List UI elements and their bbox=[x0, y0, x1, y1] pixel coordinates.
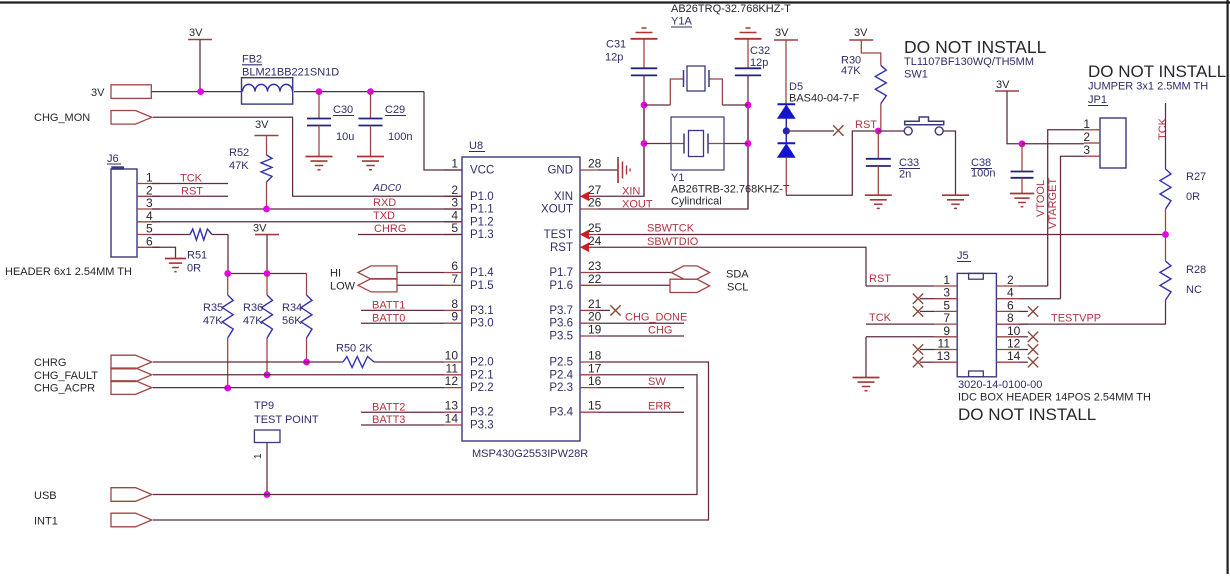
svg-text:0R: 0R bbox=[1186, 191, 1200, 203]
svg-text:GND: GND bbox=[547, 165, 573, 177]
svg-text:C30: C30 bbox=[333, 104, 353, 116]
svg-text:P2.3: P2.3 bbox=[549, 382, 573, 394]
svg-text:INT1: INT1 bbox=[34, 516, 58, 528]
svg-text:1: 1 bbox=[1083, 117, 1090, 131]
svg-text:DO NOT INSTALL: DO NOT INSTALL bbox=[904, 37, 1047, 57]
svg-text:RST: RST bbox=[869, 273, 891, 285]
svg-text:100n: 100n bbox=[388, 131, 412, 143]
svg-text:P3.6: P3.6 bbox=[549, 318, 573, 330]
svg-text:HEADER 6x1 2.54MM TH: HEADER 6x1 2.54MM TH bbox=[5, 266, 132, 278]
svg-text:P1.3: P1.3 bbox=[470, 229, 494, 241]
svg-text:3V: 3V bbox=[255, 119, 269, 131]
svg-text:26: 26 bbox=[588, 196, 602, 210]
svg-text:6: 6 bbox=[146, 234, 153, 248]
svg-text:Y1A: Y1A bbox=[671, 16, 692, 28]
svg-text:MSP430G2553IPW28R: MSP430G2553IPW28R bbox=[472, 448, 588, 460]
svg-text:13: 13 bbox=[937, 349, 951, 363]
svg-text:RXD: RXD bbox=[373, 197, 396, 209]
svg-text:SW: SW bbox=[648, 376, 666, 388]
svg-text:FB2: FB2 bbox=[242, 54, 262, 66]
svg-text:P3.0: P3.0 bbox=[470, 318, 494, 330]
svg-text:P3.7: P3.7 bbox=[549, 305, 573, 317]
svg-text:TCK: TCK bbox=[180, 173, 203, 185]
svg-text:JP1: JP1 bbox=[1088, 94, 1107, 106]
svg-text:R51: R51 bbox=[187, 250, 207, 262]
svg-text:3V: 3V bbox=[91, 87, 105, 99]
svg-text:15: 15 bbox=[588, 399, 602, 413]
svg-text:47K: 47K bbox=[203, 315, 223, 327]
svg-text:R50 2K: R50 2K bbox=[336, 343, 373, 355]
svg-text:CHG_DONE: CHG_DONE bbox=[625, 312, 687, 324]
svg-text:P1.1: P1.1 bbox=[470, 204, 494, 216]
svg-text:R35: R35 bbox=[203, 302, 223, 314]
svg-text:C33: C33 bbox=[899, 157, 919, 169]
svg-text:TCK: TCK bbox=[1157, 117, 1169, 140]
svg-text:P2.4: P2.4 bbox=[549, 369, 573, 381]
svg-text:47K: 47K bbox=[841, 65, 861, 77]
svg-text:12: 12 bbox=[445, 374, 459, 388]
svg-text:P1.7: P1.7 bbox=[549, 267, 573, 279]
svg-text:SBWTDIO: SBWTDIO bbox=[647, 236, 699, 248]
svg-text:19: 19 bbox=[588, 323, 602, 337]
svg-text:AB26TRB-32.768KHZ-T: AB26TRB-32.768KHZ-T bbox=[671, 184, 790, 196]
svg-text:DO NOT INSTALL: DO NOT INSTALL bbox=[1088, 62, 1226, 81]
svg-text:U8: U8 bbox=[469, 140, 483, 152]
svg-text:LOW: LOW bbox=[330, 281, 356, 293]
svg-text:RST: RST bbox=[550, 242, 573, 254]
svg-text:Cylindrical: Cylindrical bbox=[671, 196, 722, 208]
svg-text:P3.2: P3.2 bbox=[470, 407, 494, 419]
svg-text:ADC0: ADC0 bbox=[372, 182, 401, 194]
svg-text:R36: R36 bbox=[243, 302, 263, 314]
svg-text:JUMPER 3x1 2.5MM TH: JUMPER 3x1 2.5MM TH bbox=[1088, 81, 1208, 93]
svg-text:BAS40-04-7-F: BAS40-04-7-F bbox=[789, 93, 860, 105]
svg-text:CHRG: CHRG bbox=[34, 357, 66, 369]
svg-text:CHRG: CHRG bbox=[374, 223, 406, 235]
svg-text:VTOOL: VTOOL bbox=[1035, 180, 1047, 217]
svg-text:P3.1: P3.1 bbox=[470, 305, 494, 317]
svg-text:TP9: TP9 bbox=[254, 400, 274, 412]
svg-text:XIN: XIN bbox=[554, 191, 573, 203]
svg-text:IDC BOX HEADER 14POS 2.54MM TH: IDC BOX HEADER 14POS 2.54MM TH bbox=[958, 392, 1151, 404]
svg-text:Y1: Y1 bbox=[671, 172, 684, 184]
svg-text:3V: 3V bbox=[854, 27, 868, 39]
svg-text:28: 28 bbox=[588, 157, 602, 171]
svg-text:47K: 47K bbox=[229, 160, 249, 172]
svg-text:56K: 56K bbox=[282, 315, 302, 327]
svg-text:R28: R28 bbox=[1186, 264, 1206, 276]
svg-text:P2.0: P2.0 bbox=[470, 357, 494, 369]
svg-text:BLM21BB221SN1D: BLM21BB221SN1D bbox=[242, 67, 339, 79]
svg-text:NC: NC bbox=[1186, 284, 1202, 296]
svg-text:2n: 2n bbox=[899, 169, 911, 181]
svg-text:R27: R27 bbox=[1186, 171, 1206, 183]
svg-text:C32: C32 bbox=[750, 45, 770, 57]
svg-text:100n: 100n bbox=[971, 168, 995, 180]
svg-text:14: 14 bbox=[445, 412, 459, 426]
svg-text:1: 1 bbox=[451, 157, 458, 171]
svg-text:SBWTCK: SBWTCK bbox=[647, 223, 695, 235]
svg-text:AB26TRQ-32.768KHZ-T: AB26TRQ-32.768KHZ-T bbox=[671, 3, 791, 15]
svg-text:P1.0: P1.0 bbox=[470, 191, 494, 203]
svg-text:R34: R34 bbox=[282, 302, 302, 314]
svg-text:3V: 3V bbox=[253, 223, 267, 235]
svg-text:P1.5: P1.5 bbox=[470, 280, 494, 292]
svg-text:TEST: TEST bbox=[544, 229, 573, 241]
svg-text:J6: J6 bbox=[107, 153, 119, 165]
svg-text:0R: 0R bbox=[187, 263, 201, 275]
svg-text:CHG_FAULT: CHG_FAULT bbox=[34, 370, 98, 382]
svg-text:TXD: TXD bbox=[373, 210, 395, 222]
svg-text:P1.2: P1.2 bbox=[470, 216, 494, 228]
svg-text:2: 2 bbox=[1083, 130, 1090, 144]
svg-text:CHG_ACPR: CHG_ACPR bbox=[34, 383, 95, 395]
svg-text:HI: HI bbox=[330, 268, 341, 280]
svg-text:P1.6: P1.6 bbox=[549, 280, 573, 292]
svg-text:SW1: SW1 bbox=[904, 69, 928, 81]
svg-text:ERR: ERR bbox=[648, 401, 671, 413]
svg-text:12p: 12p bbox=[750, 57, 768, 69]
svg-text:R52: R52 bbox=[229, 147, 249, 159]
svg-text:P1.4: P1.4 bbox=[470, 267, 494, 279]
svg-text:22: 22 bbox=[588, 272, 602, 286]
svg-text:SCL: SCL bbox=[727, 282, 748, 294]
svg-text:P3.3: P3.3 bbox=[470, 420, 494, 432]
svg-text:TCK: TCK bbox=[869, 312, 892, 324]
svg-text:10u: 10u bbox=[336, 131, 354, 143]
svg-text:CHG_MON: CHG_MON bbox=[34, 112, 90, 124]
svg-text:C31: C31 bbox=[606, 39, 626, 51]
svg-text:D5: D5 bbox=[789, 81, 803, 93]
svg-text:USB: USB bbox=[34, 490, 57, 502]
svg-text:14: 14 bbox=[1007, 349, 1021, 363]
svg-text:3020-14-0100-00: 3020-14-0100-00 bbox=[958, 379, 1042, 391]
svg-text:J5: J5 bbox=[957, 250, 969, 262]
svg-text:P2.5: P2.5 bbox=[549, 357, 573, 369]
svg-text:7: 7 bbox=[451, 272, 458, 286]
svg-text:SDA: SDA bbox=[726, 269, 749, 281]
svg-text:3V: 3V bbox=[996, 79, 1010, 91]
svg-text:VCC: VCC bbox=[470, 165, 494, 177]
svg-text:TL1107BF130WQ/TH5MM: TL1107BF130WQ/TH5MM bbox=[904, 56, 1034, 68]
svg-text:24: 24 bbox=[588, 234, 602, 248]
svg-text:P2.1: P2.1 bbox=[470, 369, 494, 381]
svg-text:C29: C29 bbox=[385, 104, 405, 116]
svg-text:47K: 47K bbox=[243, 315, 263, 327]
svg-text:12p: 12p bbox=[605, 52, 623, 64]
svg-text:5: 5 bbox=[451, 221, 458, 235]
svg-text:3V: 3V bbox=[189, 27, 203, 39]
svg-text:P2.2: P2.2 bbox=[470, 382, 494, 394]
svg-text:1: 1 bbox=[253, 453, 264, 459]
svg-text:VTARGET: VTARGET bbox=[1047, 178, 1059, 229]
svg-text:XOUT: XOUT bbox=[541, 204, 573, 216]
svg-text:3V: 3V bbox=[775, 27, 789, 39]
svg-text:TESTVPP: TESTVPP bbox=[1051, 313, 1101, 325]
svg-text:RST: RST bbox=[855, 119, 877, 131]
svg-text:9: 9 bbox=[451, 310, 458, 324]
svg-text:TEST POINT: TEST POINT bbox=[254, 414, 319, 426]
svg-text:3: 3 bbox=[1083, 143, 1090, 157]
svg-text:P3.5: P3.5 bbox=[549, 331, 573, 343]
svg-text:DO NOT INSTALL: DO NOT INSTALL bbox=[958, 405, 1096, 424]
svg-text:16: 16 bbox=[588, 374, 602, 388]
svg-text:CHG: CHG bbox=[648, 325, 672, 337]
svg-text:P3.4: P3.4 bbox=[549, 407, 573, 419]
